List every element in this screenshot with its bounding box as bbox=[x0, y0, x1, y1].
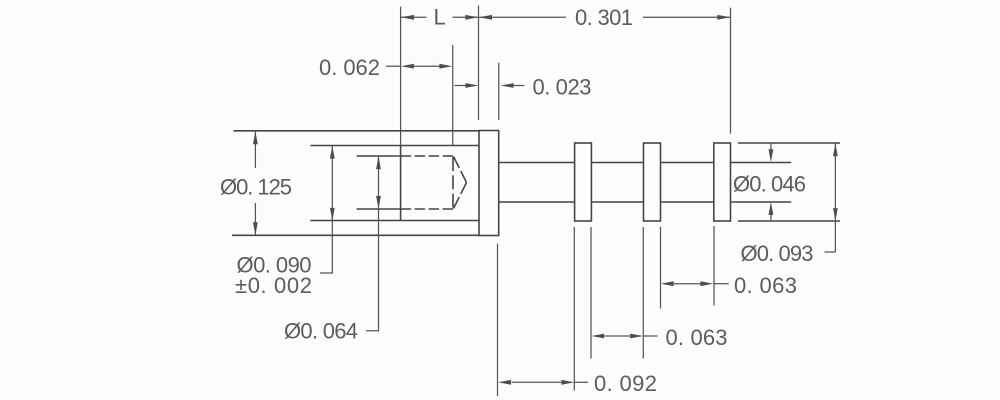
collar 2 rectangle bbox=[575, 143, 592, 221]
dimension 0.092 (flange to collar2) bbox=[498, 380, 588, 385]
svg-text:±0. 002: ±0. 002 bbox=[235, 273, 312, 298]
extension line at sleeve face x=400.6 bbox=[400, 7, 402, 146]
flange top extension line bbox=[234, 130, 480, 132]
extension line at flange right x=498.8 bbox=[498, 63, 500, 120]
shaft segment A bbox=[499, 163, 574, 203]
dimension dia 0.093 bbox=[825, 143, 838, 252]
extension line below collar3 right x=660.5 bbox=[660, 227, 662, 309]
shaft diameter extension lines (right) bbox=[731, 163, 792, 203]
svg-text:Ø0. 125: Ø0. 125 bbox=[220, 175, 292, 200]
extension line at flange left x=478.5 bbox=[478, 6, 480, 120]
svg-text:0. 023: 0. 023 bbox=[533, 75, 592, 100]
collar diameter extension lines (far right) bbox=[738, 143, 840, 221]
extension line below collar2 left x=574.3 bbox=[573, 227, 575, 391]
svg-text:0. 063: 0. 063 bbox=[666, 325, 728, 350]
svg-text:Ø0. 064: Ø0. 064 bbox=[284, 319, 358, 344]
svg-text:Ø0. 046: Ø0. 046 bbox=[733, 172, 806, 197]
svg-text:L: L bbox=[434, 5, 446, 30]
extension line at bore end x=452.7 bbox=[452, 45, 454, 146]
extension line below flange right x=497.5 bbox=[497, 244, 499, 396]
svg-text:0. 092: 0. 092 bbox=[594, 371, 657, 396]
extension line below collar4 left x=714 bbox=[713, 226, 715, 306]
dimension dia 0.090 with tolerance bbox=[320, 146, 335, 273]
svg-text:Ø0. 093: Ø0. 093 bbox=[741, 241, 814, 266]
dimension 0.063 lower (collar2 to collar3) bbox=[591, 334, 657, 339]
dimension 0.062 bbox=[386, 64, 452, 69]
svg-text:0. 063: 0. 063 bbox=[734, 273, 797, 298]
dimension dia 0.125 bbox=[253, 131, 258, 235]
svg-text:0. 062: 0. 062 bbox=[319, 55, 380, 80]
dimension dia 0.064 bbox=[366, 156, 381, 331]
flange bottom extension line bbox=[232, 234, 479, 236]
flange rectangle bbox=[479, 131, 499, 236]
dimension 0.063 upper (collar3 to collar4) bbox=[661, 281, 729, 286]
extension line below collar3 left x=643.3 bbox=[642, 227, 644, 359]
dimension L bbox=[401, 15, 478, 20]
shaft segment C bbox=[661, 163, 714, 203]
dimension dia 0.046 bbox=[769, 144, 774, 222]
svg-text:0. 301: 0. 301 bbox=[575, 5, 633, 30]
sleeve body outline (socket barrel) bbox=[310, 146, 479, 221]
hidden bore dashed lines with drill-point chevron bbox=[401, 156, 467, 209]
collar 3 rectangle bbox=[644, 143, 661, 221]
shaft segment B bbox=[591, 163, 644, 203]
collar 4 rectangle bbox=[714, 143, 731, 221]
dimension 0.301 bbox=[479, 15, 730, 20]
dimension 0.023 bbox=[454, 83, 524, 88]
extension line below collar2 right x=591 bbox=[590, 227, 592, 359]
bore extension lines (solid, left of part) bbox=[357, 156, 401, 209]
extension line at part end x=730.5 bbox=[730, 8, 732, 134]
